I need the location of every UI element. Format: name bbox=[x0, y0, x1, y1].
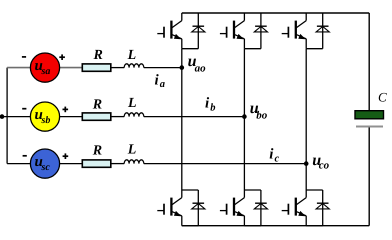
svg-text:L: L bbox=[127, 143, 137, 158]
svg-text:L: L bbox=[127, 48, 137, 63]
svg-text:b: b bbox=[210, 103, 215, 114]
svg-text:ao: ao bbox=[195, 63, 207, 75]
svg-text:R: R bbox=[92, 143, 102, 158]
svg-text:co: co bbox=[319, 159, 330, 171]
svg-text:sc: sc bbox=[41, 162, 51, 173]
svg-text:bo: bo bbox=[256, 109, 268, 121]
svg-text:C: C bbox=[378, 90, 387, 105]
svg-text:a: a bbox=[160, 79, 165, 90]
svg-text:c: c bbox=[275, 153, 280, 164]
svg-text:L: L bbox=[127, 96, 137, 111]
svg-text:sb: sb bbox=[41, 115, 51, 126]
svg-text:sa: sa bbox=[41, 66, 51, 77]
svg-text:R: R bbox=[93, 48, 103, 63]
svg-text:R: R bbox=[92, 98, 102, 113]
